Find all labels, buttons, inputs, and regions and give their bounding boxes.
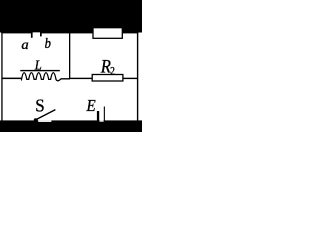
- wire top (merged with band bottom): [1, 32, 138, 33]
- resistor R2 box: [92, 75, 123, 82]
- svg-text:S: S: [35, 96, 44, 116]
- svg-text:a: a: [21, 38, 28, 53]
- svg-text:L: L: [34, 59, 42, 74]
- node gap a-b white notch: [33, 32, 40, 33]
- wire to inductor: [2, 78, 21, 80]
- battery E short plate: [97, 111, 99, 121]
- wire R2 to right border: [123, 78, 137, 79]
- terminal plate b: [40, 32, 42, 37]
- inductor L coil: [21, 73, 70, 81]
- wire right border: [137, 31, 138, 122]
- svg-text:b: b: [45, 36, 51, 52]
- switch S blade: [35, 110, 56, 121]
- svg-text:E: E: [86, 96, 96, 115]
- wire left border: [1, 31, 2, 122]
- switch open gap in bottom wire: [38, 120, 51, 122]
- terminal plate a: [31, 32, 33, 38]
- bottom black band: [0, 120, 142, 132]
- resistor R1 (top, unlabeled box): [93, 28, 122, 39]
- switch S pivot contact: [34, 118, 38, 121]
- inductor iron core bar: [20, 70, 60, 71]
- battery gap in bottom wire: [100, 120, 104, 121]
- top black band: [0, 0, 142, 33]
- svg-text:2: 2: [110, 64, 115, 78]
- battery E long plate: [104, 107, 105, 122]
- wire junction to R2: [70, 78, 92, 79]
- wire middle vertical: [69, 32, 70, 79]
